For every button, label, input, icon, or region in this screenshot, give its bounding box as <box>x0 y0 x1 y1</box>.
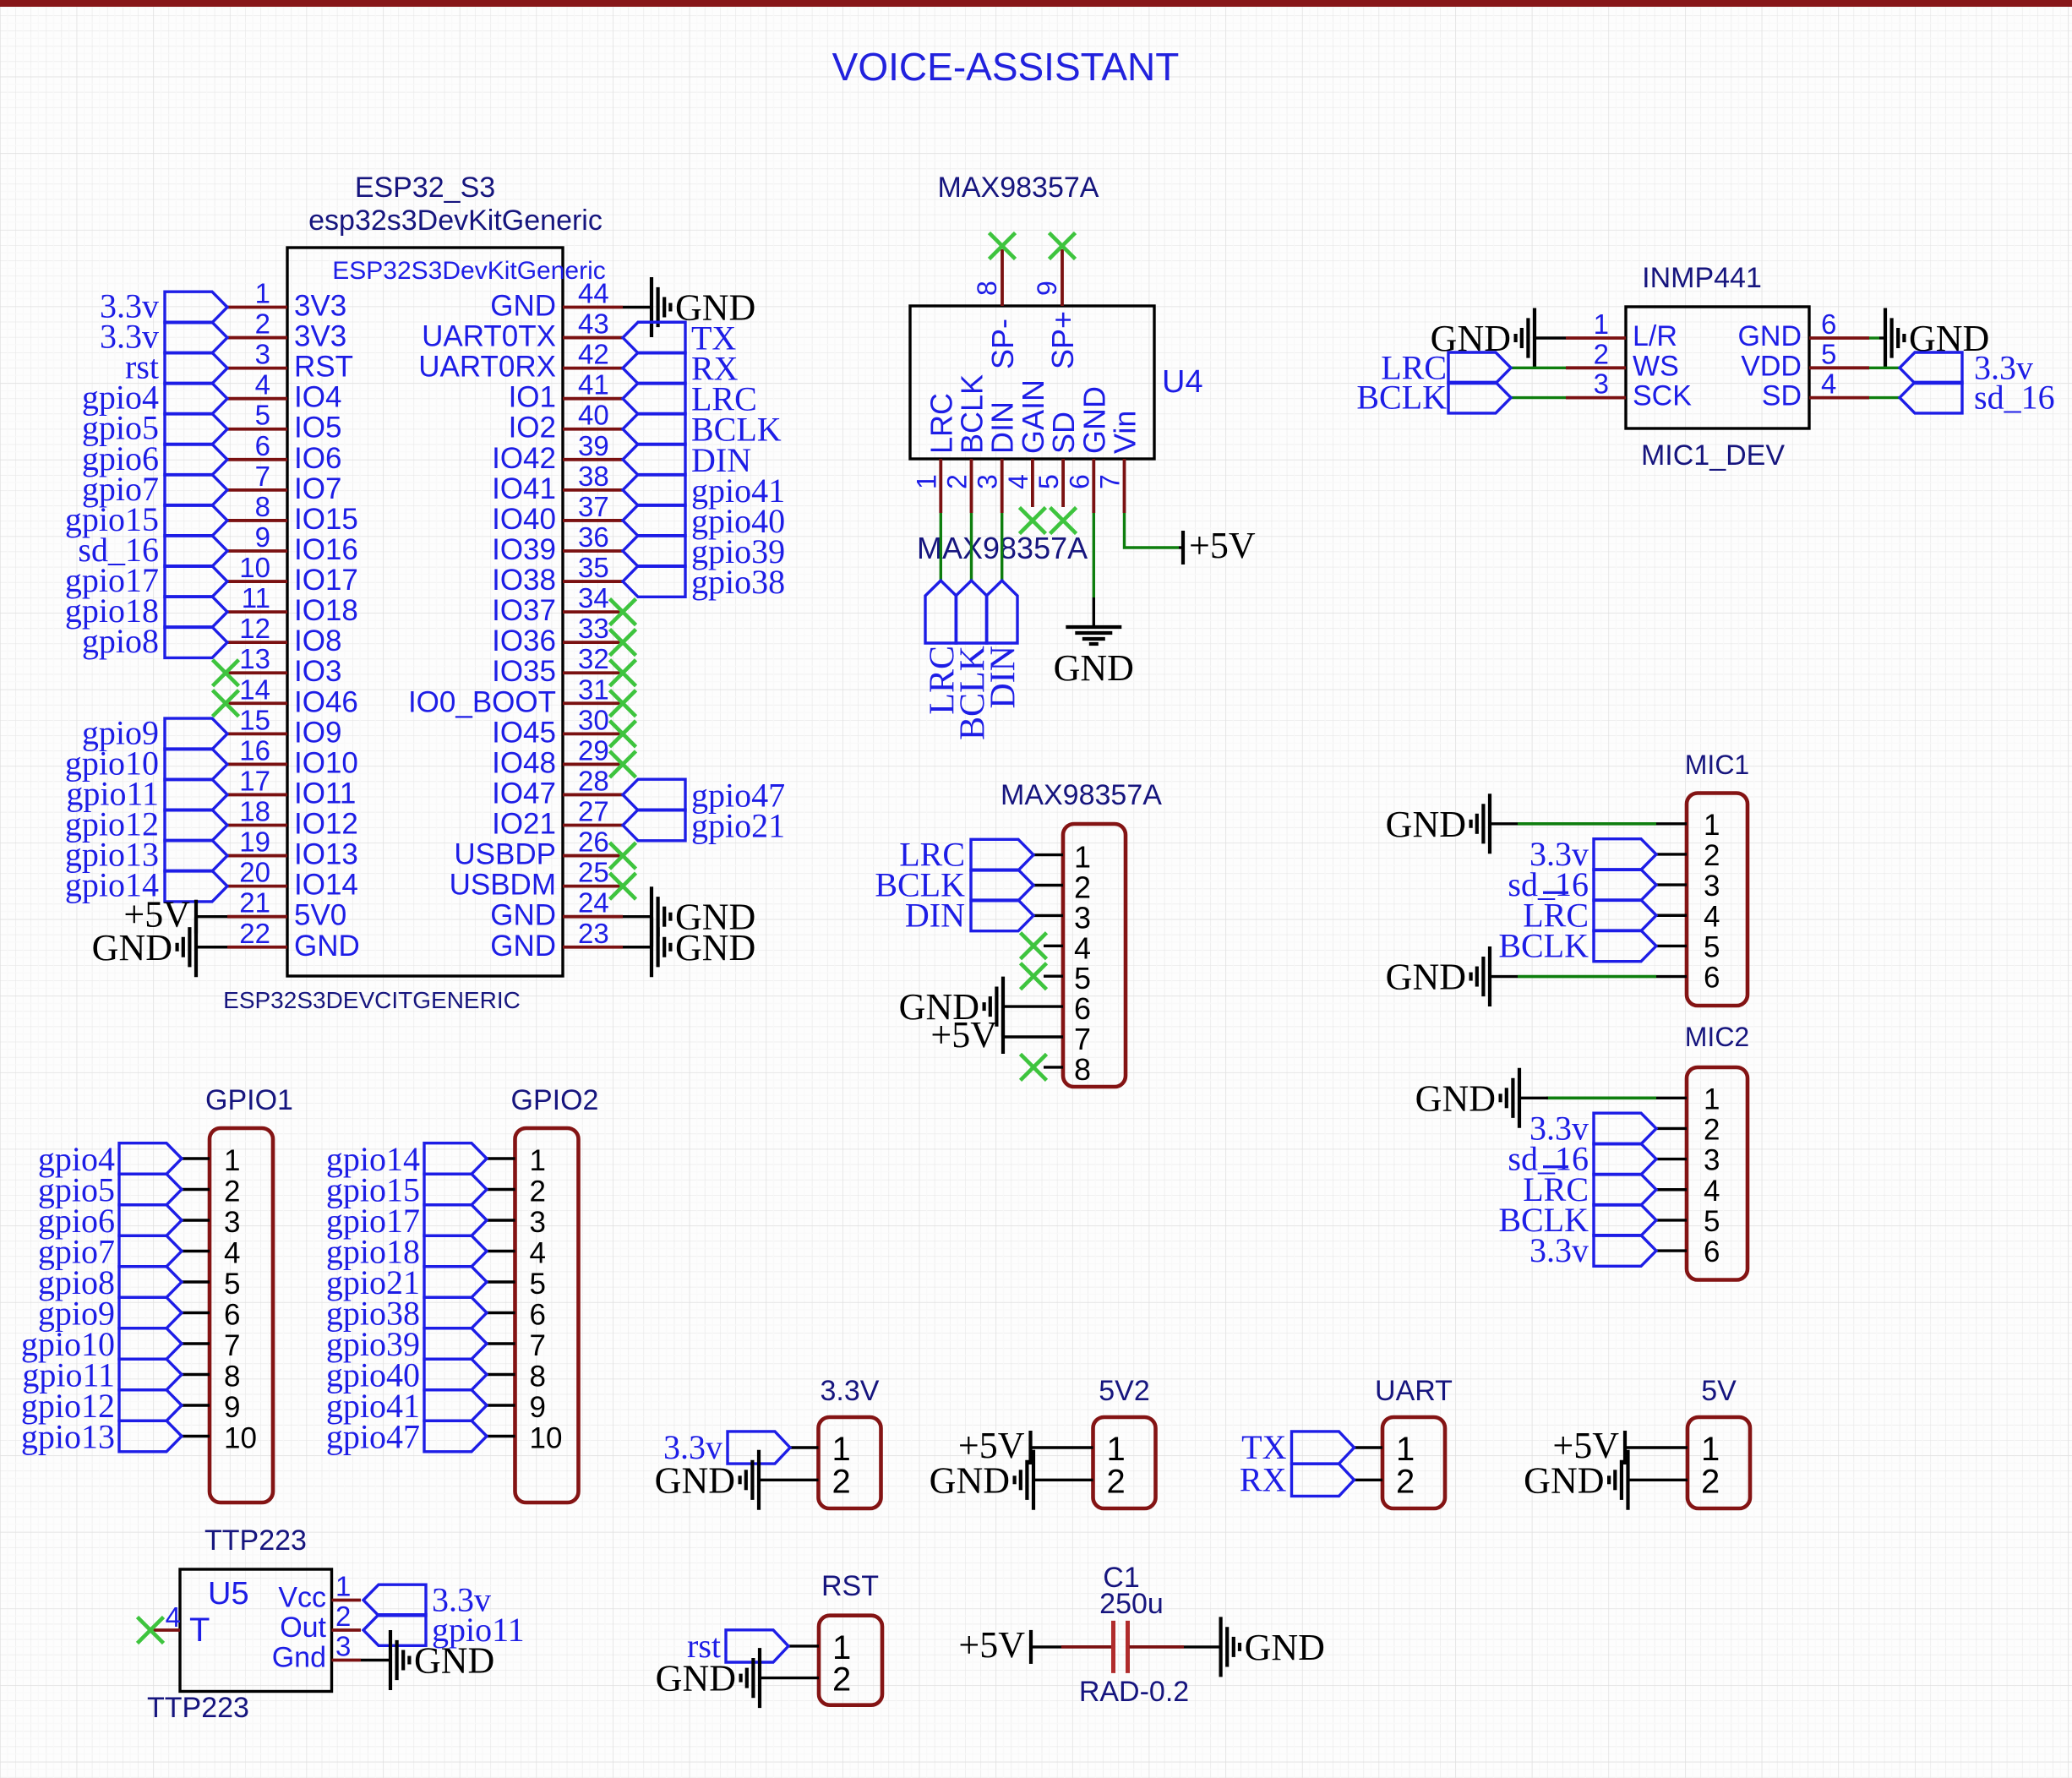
wire GPIO2 pin 5 <box>487 1280 515 1283</box>
wire GPIO1 pin 5 <box>182 1280 210 1283</box>
connector MAX98357A (8-pin) <box>875 779 1162 1087</box>
ESP32 pin 36 IO39 <box>492 521 623 566</box>
svg-text:25: 25 <box>578 857 609 888</box>
wire GPIO1 pin 8 <box>182 1373 210 1376</box>
svg-text:9: 9 <box>1032 281 1062 296</box>
3.3V body outline <box>819 1417 881 1508</box>
svg-text:GND: GND <box>414 1640 494 1682</box>
svg-text:26: 26 <box>578 826 609 858</box>
wire U4 pin 7 Vin to +5V <box>1125 513 1180 548</box>
svg-text:5: 5 <box>1074 961 1091 995</box>
wire GPIO2 pin 3 <box>487 1219 515 1221</box>
U4 pin 1 LRC <box>911 393 958 513</box>
wire pin 23 to GND <box>623 946 652 948</box>
ESP32 pin 19 IO13 <box>227 826 358 871</box>
wire GPIO2 pin 2 <box>487 1188 515 1191</box>
svg-text:3: 3 <box>973 474 1003 489</box>
svg-text:2: 2 <box>1704 839 1720 872</box>
svg-text:4: 4 <box>255 369 270 401</box>
ESP32 pin 33 IO36 <box>492 613 623 657</box>
svg-text:IO18: IO18 <box>294 594 358 627</box>
svg-text:2: 2 <box>1704 1113 1720 1146</box>
ESP32 pin 16 IO10 <box>227 734 358 779</box>
svg-text:IO39: IO39 <box>492 533 556 566</box>
ESP32 pin 18 IO12 <box>227 796 358 841</box>
svg-text:3: 3 <box>530 1206 546 1239</box>
wire pin 4 <box>1044 945 1063 947</box>
component U4 MAX98357A <box>910 172 1256 740</box>
wire MIC2 pin 6 <box>1656 1249 1687 1252</box>
net flag gpio9 pin 15 <box>82 713 227 751</box>
svg-text:3: 3 <box>1704 870 1720 903</box>
wire pin 2 <box>1033 884 1063 886</box>
U5 pin 1 Vcc <box>278 1571 361 1614</box>
svg-text:+5V: +5V <box>930 1014 997 1055</box>
wire MIC2 pin 5 <box>1656 1219 1687 1221</box>
svg-text:SP-: SP- <box>985 319 1020 369</box>
svg-text:gpio13: gpio13 <box>21 1418 115 1456</box>
svg-text:1: 1 <box>1704 1083 1720 1115</box>
wire 3.3V pin 1 <box>790 1446 819 1448</box>
wire pin 3 <box>1033 914 1063 917</box>
svg-text:IO3: IO3 <box>294 655 341 688</box>
svg-text:esp32s3DevKitGeneric: esp32s3DevKitGeneric <box>308 205 603 237</box>
GPIO2 body outline <box>515 1128 579 1503</box>
no-connect X pin 5 <box>1021 963 1047 990</box>
no-connect X pin 25 <box>610 873 636 899</box>
no-connect X pin 4 <box>1021 933 1047 959</box>
svg-text:5: 5 <box>1033 474 1064 489</box>
svg-text:10: 10 <box>530 1422 563 1455</box>
wire INMP441 pin5 VDD <box>1869 367 1900 369</box>
net flag gpio11 <box>22 1356 182 1394</box>
no-connect X pin 13 <box>213 660 239 686</box>
svg-text:2: 2 <box>1107 1463 1126 1500</box>
svg-text:1: 1 <box>224 1144 240 1177</box>
ESP32 pin 7 IO7 <box>227 461 341 505</box>
svg-text:U4: U4 <box>1162 364 1203 400</box>
svg-text:1: 1 <box>335 1571 351 1602</box>
svg-text:5: 5 <box>224 1268 240 1301</box>
no-connect X pin 8 <box>1021 1054 1047 1080</box>
svg-text:22: 22 <box>239 918 270 949</box>
wire MIC1 pin 2 <box>1656 853 1687 855</box>
svg-text:IO37: IO37 <box>492 594 556 627</box>
component INMP441 MIC1_DEV <box>1356 262 2054 472</box>
net flag gpio4 <box>38 1140 182 1178</box>
ground GND MIC1 pin 1 <box>1386 794 1490 854</box>
wire pin 44 to GND <box>623 306 652 308</box>
net flag LRC <box>1523 892 1656 934</box>
net flag gpio10 <box>21 1325 182 1363</box>
svg-text:MAX98357A: MAX98357A <box>938 172 1099 204</box>
5V body outline <box>1688 1417 1750 1508</box>
wire MIC1 pin 3 <box>1656 883 1687 886</box>
wire 5V pin 1 to +5V <box>1625 1446 1688 1448</box>
net flag LRC (vertical) <box>923 581 962 715</box>
wire UART pin 2 <box>1355 1479 1383 1481</box>
ground GND for C1 <box>1221 1617 1325 1677</box>
svg-text:15: 15 <box>239 704 270 735</box>
no-connect X U4 pin 5 <box>1050 508 1077 534</box>
svg-text:GND: GND <box>1077 386 1111 454</box>
svg-text:2: 2 <box>1396 1463 1415 1500</box>
svg-text:1: 1 <box>911 474 941 489</box>
svg-text:VDD: VDD <box>1741 350 1802 382</box>
svg-text:U5: U5 <box>208 1576 249 1612</box>
ground GND <box>656 1648 760 1708</box>
wire MIC1 pin 5 <box>1656 945 1687 947</box>
net flag gpio17 <box>326 1202 487 1240</box>
svg-text:4: 4 <box>530 1237 546 1270</box>
svg-text:IO48: IO48 <box>492 746 556 779</box>
ESP32 pin 31 IO0_BOOT <box>408 674 623 718</box>
net flag 3.3v <box>663 1428 790 1466</box>
svg-text:2: 2 <box>1074 870 1091 905</box>
svg-text:4: 4 <box>1821 368 1836 400</box>
svg-text:IO5: IO5 <box>294 412 341 444</box>
wire GPIO2 pin 4 <box>487 1250 515 1252</box>
net flag gpio12 pin 18 <box>65 805 227 843</box>
U4 pin 2 BCLK <box>942 374 990 513</box>
wire U4 pin 1 to flag LRC <box>940 513 942 581</box>
svg-text:GPIO2: GPIO2 <box>511 1084 599 1116</box>
connector GPIO1 (10-pin) <box>21 1084 293 1503</box>
ground GND <box>930 1450 1033 1510</box>
overline on LRC <box>1543 892 1568 894</box>
svg-text:3: 3 <box>1704 1144 1720 1177</box>
net flag gpio39 <box>326 1325 487 1363</box>
U4 pin 4 GAIN <box>1003 379 1050 507</box>
ESP32 body outline <box>287 248 563 976</box>
wire pin 1 <box>1033 854 1063 856</box>
net flag 3.3v pin 1 <box>100 287 227 325</box>
svg-text:TTP223: TTP223 <box>147 1692 249 1724</box>
svg-text:6: 6 <box>1064 474 1094 489</box>
power symbol +5V for U4 <box>1183 525 1256 566</box>
svg-text:DIN: DIN <box>905 896 965 934</box>
svg-text:4: 4 <box>1704 900 1720 933</box>
svg-text:USBDP: USBDP <box>454 838 556 871</box>
power symbol +5V <box>958 1425 1031 1466</box>
ground GND U5 <box>390 1630 494 1690</box>
svg-text:8: 8 <box>255 491 270 522</box>
svg-text:GND: GND <box>490 290 556 323</box>
wire pin 5 <box>1044 974 1063 977</box>
U5 pin 3 Gnd <box>272 1631 361 1674</box>
wire MIC1 pin 1 to GND <box>1656 822 1687 825</box>
net flag LRC <box>1523 1167 1656 1208</box>
no-connect X pin 33 <box>610 630 636 656</box>
svg-text:3: 3 <box>224 1206 240 1239</box>
ESP32 pin 30 IO45 <box>492 704 623 749</box>
svg-text:GND: GND <box>490 899 556 932</box>
UART body outline <box>1382 1417 1445 1508</box>
svg-text:BCLK: BCLK <box>955 374 990 454</box>
ESP32 pin 39 IO42 <box>492 430 623 475</box>
wire UART pin 1 <box>1355 1446 1383 1448</box>
ground GND right of INMP441 <box>1885 308 1989 368</box>
svg-text:6: 6 <box>255 430 270 461</box>
svg-text:43: 43 <box>578 308 609 340</box>
no-connect X pin 8 <box>990 233 1016 259</box>
svg-text:GND: GND <box>1524 1459 1604 1501</box>
svg-text:IO45: IO45 <box>492 716 556 749</box>
svg-text:IO1: IO1 <box>509 381 556 414</box>
wire 5V2 pin 2 to GND <box>1033 1479 1093 1481</box>
wire pin 22 to GND <box>196 946 227 948</box>
svg-text:GND: GND <box>294 930 360 963</box>
net flag gpio15 <box>326 1171 487 1209</box>
net flag 3.3v <box>1529 1231 1656 1269</box>
net flag BCLK (vertical) <box>954 581 993 740</box>
svg-text:4: 4 <box>1074 930 1091 965</box>
svg-text:SP+: SP+ <box>1045 311 1080 369</box>
net flag gpio47 <box>326 1418 487 1456</box>
net flag gpio41 <box>326 1387 487 1425</box>
ground GND <box>92 917 196 977</box>
wire GPIO2 pin 8 <box>487 1373 515 1376</box>
svg-text:RAD-0.2: RAD-0.2 <box>1079 1676 1189 1708</box>
net flag gpio10 pin 16 <box>65 744 227 782</box>
svg-text:IO2: IO2 <box>509 412 556 444</box>
svg-text:GND: GND <box>92 927 172 968</box>
svg-text:35: 35 <box>578 552 609 583</box>
ESP32 pin 25 USBDM <box>450 857 623 902</box>
net flag 3.3v U5 pin1 <box>363 1581 491 1619</box>
svg-text:6: 6 <box>1821 308 1836 340</box>
svg-text:32: 32 <box>578 643 609 674</box>
INMP441 pin 2 WS <box>1566 338 1679 382</box>
net flag gpio6 pin 6 <box>82 439 227 477</box>
ESP32 pin 21 5V0 <box>227 887 346 932</box>
svg-text:19: 19 <box>239 826 270 858</box>
svg-text:UART: UART <box>1375 1375 1453 1407</box>
net flag LRC <box>1381 348 1511 386</box>
svg-text:2: 2 <box>530 1175 546 1208</box>
svg-text:GND: GND <box>1245 1627 1325 1668</box>
no-connect X pin 32 <box>610 660 636 686</box>
svg-text:4: 4 <box>224 1237 240 1270</box>
svg-text:Out: Out <box>280 1612 326 1644</box>
wire U4 pin 6 to GND <box>1093 513 1095 597</box>
net flag 3.3v <box>1900 348 2033 386</box>
svg-text:7: 7 <box>530 1329 546 1362</box>
svg-text:3.3v: 3.3v <box>1529 1231 1589 1269</box>
svg-text:IO13: IO13 <box>294 838 358 871</box>
wire RST pin 2 to GND <box>760 1677 819 1679</box>
svg-text:GPIO1: GPIO1 <box>205 1084 293 1116</box>
ground GND MIC1 pin 6 <box>1386 946 1490 1006</box>
net flag gpio8 <box>38 1263 182 1301</box>
net flag gpio6 <box>38 1202 182 1240</box>
ESP32 pin 44 GND <box>490 278 623 323</box>
wire GPIO2 pin 7 <box>487 1342 515 1344</box>
wire U4 pin 3 to flag DIN <box>1001 513 1003 581</box>
net flag sd_16 <box>1508 1140 1656 1178</box>
svg-text:39: 39 <box>578 430 609 461</box>
svg-text:12: 12 <box>239 613 270 644</box>
svg-text:IO47: IO47 <box>492 777 556 810</box>
svg-text:SCK: SCK <box>1633 380 1692 412</box>
svg-text:IO9: IO9 <box>294 716 341 749</box>
svg-text:BCLK: BCLK <box>1356 379 1447 417</box>
svg-text:IO16: IO16 <box>294 533 358 566</box>
wire C1 to GND <box>1130 1645 1185 1649</box>
net flag 3.3v <box>1529 1109 1656 1147</box>
ESP32 pin 42 UART0RX <box>418 339 623 384</box>
svg-text:2: 2 <box>1594 338 1609 369</box>
svg-text:8: 8 <box>1074 1052 1091 1087</box>
svg-text:6: 6 <box>530 1299 546 1332</box>
connector MIC2 (6-pin) <box>1415 1022 1750 1280</box>
wire GPIO1 pin 1 <box>182 1157 210 1159</box>
svg-text:gpio47: gpio47 <box>326 1418 420 1456</box>
net flag rst pin 3 <box>125 348 227 386</box>
net flag gpio38 <box>326 1295 487 1333</box>
svg-text:GND: GND <box>1386 804 1466 845</box>
svg-text:IO46: IO46 <box>294 685 358 718</box>
net flag LRC <box>899 836 1033 874</box>
ground GND left of INMP441 <box>1431 308 1535 368</box>
svg-text:9: 9 <box>224 1391 240 1424</box>
svg-text:5V2: 5V2 <box>1099 1375 1150 1407</box>
svg-text:44: 44 <box>578 278 609 309</box>
svg-text:UART0TX: UART0TX <box>422 320 556 353</box>
component U5 TTP223 <box>138 1524 525 1724</box>
svg-text:DIN: DIN <box>984 646 1023 709</box>
svg-text:10: 10 <box>224 1422 257 1455</box>
svg-text:16: 16 <box>239 734 270 766</box>
svg-text:6: 6 <box>1704 962 1720 995</box>
INMP441 pin 4 SD <box>1762 368 1869 412</box>
svg-text:gpio38: gpio38 <box>691 563 785 601</box>
net flag DIN (vertical) <box>984 581 1023 709</box>
svg-text:5: 5 <box>1704 1205 1720 1238</box>
svg-text:4: 4 <box>1003 474 1033 489</box>
ESP32 pin 11 IO18 <box>227 582 358 627</box>
RST body outline <box>819 1616 882 1705</box>
net flag gpio41 pin 38 <box>623 472 785 510</box>
wire GPIO1 pin 4 <box>182 1250 210 1252</box>
svg-text:11: 11 <box>242 582 270 614</box>
svg-text:IO14: IO14 <box>294 869 358 902</box>
net flag RX pin 42 <box>623 350 739 388</box>
svg-text:2: 2 <box>335 1601 351 1632</box>
wire MIC1 pin 6 to GND <box>1656 975 1687 978</box>
svg-text:5: 5 <box>1821 338 1836 369</box>
svg-text:GAIN: GAIN <box>1016 379 1050 454</box>
net flag gpio13 <box>21 1418 182 1456</box>
no-connect X U4 pin 4 <box>1019 508 1045 534</box>
wire GPIO2 pin 9 <box>487 1404 515 1406</box>
ground GND <box>652 277 755 337</box>
net flag TX pin 43 <box>623 319 736 357</box>
svg-text:4: 4 <box>1704 1175 1720 1208</box>
net flag gpio21 <box>326 1263 487 1301</box>
wire INMP441 pin3 SCK <box>1511 396 1566 399</box>
ESP32 pin 12 IO8 <box>227 613 341 657</box>
svg-text:33: 33 <box>578 613 609 644</box>
net flag BCLK pin 40 <box>623 411 782 449</box>
net flag gpio7 pin 7 <box>82 470 227 508</box>
svg-text:GND: GND <box>1054 647 1134 689</box>
ESP32 pin 5 IO5 <box>227 400 341 444</box>
svg-text:5V0: 5V0 <box>294 899 346 932</box>
svg-text:UART0RX: UART0RX <box>418 351 556 384</box>
ESP32 pin 15 IO9 <box>227 704 341 749</box>
net flag gpio11 U5 pin2 <box>363 1611 525 1649</box>
net flag RX <box>1240 1460 1355 1498</box>
net flag gpio14 pin 20 <box>65 866 227 904</box>
svg-text:8: 8 <box>224 1361 240 1393</box>
ground GND <box>652 886 755 946</box>
svg-text:1: 1 <box>1074 840 1091 875</box>
ESP32 pin 8 IO15 <box>227 491 358 536</box>
wire MIC2 pin 2 <box>1656 1127 1687 1130</box>
no-connect X pin 31 <box>610 690 636 717</box>
INMP441 pin 5 VDD <box>1741 338 1869 382</box>
ground GND <box>655 1450 759 1510</box>
U4 pin 6 GND <box>1064 386 1111 513</box>
net flag gpio5 <box>38 1171 182 1209</box>
wire U5 pin3 to GND <box>361 1659 390 1661</box>
wire INMP441 pin6 to GND <box>1869 336 1879 339</box>
svg-text:5: 5 <box>530 1268 546 1301</box>
no-connect X pin 14 <box>213 690 239 717</box>
svg-text:2: 2 <box>942 474 973 489</box>
net flag gpio17 pin 10 <box>65 561 227 599</box>
ESP32 pin 9 IO16 <box>227 521 358 566</box>
svg-text:ESP32_S3: ESP32_S3 <box>355 172 495 204</box>
svg-text:3: 3 <box>255 339 270 370</box>
svg-text:37: 37 <box>578 491 609 522</box>
power symbol +5V <box>930 1014 1003 1055</box>
svg-text:17: 17 <box>239 765 270 796</box>
net flag TX <box>1241 1428 1354 1466</box>
ESP32 pin 13 IO3 <box>227 643 341 688</box>
svg-text:Vcc: Vcc <box>278 1582 326 1614</box>
svg-text:GND: GND <box>1737 320 1802 352</box>
svg-text:3V3: 3V3 <box>294 290 346 323</box>
svg-text:2: 2 <box>255 308 270 340</box>
svg-text:7: 7 <box>1074 1022 1091 1056</box>
connector GPIO2 (10-pin) <box>326 1084 599 1503</box>
U4 pin 5 SD <box>1033 412 1081 507</box>
MIC1 body outline <box>1687 794 1748 1006</box>
net flag sd_16 pin 9 <box>78 531 227 569</box>
svg-text:RX: RX <box>1240 1460 1287 1498</box>
connector UART (2-pin) <box>1240 1375 1453 1508</box>
wire MIC1 pin 4 <box>1656 914 1687 917</box>
ESP32 pin 20 IO14 <box>227 857 358 902</box>
5V2 body outline <box>1093 1417 1156 1508</box>
connector 5V (2-pin) <box>1524 1375 1750 1510</box>
svg-text:WS: WS <box>1633 350 1679 382</box>
wire pin 7 to +5V <box>1003 1035 1063 1038</box>
svg-text:GND: GND <box>675 927 755 968</box>
power symbol +5V for C1 <box>958 1624 1031 1666</box>
svg-text:28: 28 <box>578 765 609 796</box>
ESP32 pin 6 IO6 <box>227 430 341 475</box>
ESP32 pin 28 IO47 <box>492 765 623 810</box>
wire GPIO1 pin 6 <box>182 1312 210 1314</box>
svg-text:MIC2: MIC2 <box>1685 1022 1749 1052</box>
svg-text:GND: GND <box>1415 1077 1496 1119</box>
net flag gpio8 pin 12 <box>82 622 227 660</box>
svg-text:GND: GND <box>656 1658 736 1699</box>
wire MIC2 pin 3 <box>1656 1158 1687 1160</box>
